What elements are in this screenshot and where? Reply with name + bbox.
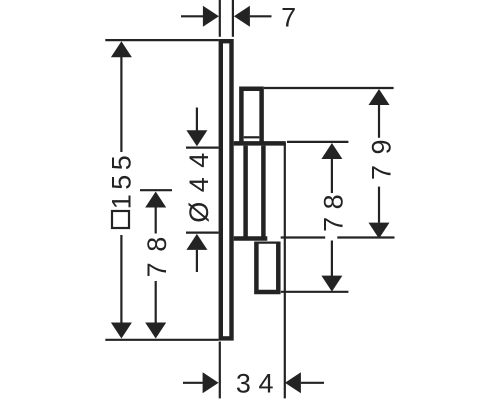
dim 34: right leader [301,382,324,384]
dim 7: left extension line [219,0,221,37]
dim 78 left: top arrow [145,192,166,208]
dim 34: right arrow [285,372,301,393]
dim 7: right arrow [234,6,250,27]
dim 79: bottom extension line left segment [281,236,326,238]
dim 44: lower arrow [186,234,207,250]
upper knob outline [241,89,261,146]
body back line [284,143,286,398]
dim 44: top tick [186,147,219,149]
dim 44: upper leader [196,108,198,131]
dim 7: right leader [250,15,272,17]
dim 79: bottom extension line right segment [337,236,394,238]
svg-text:7 8: 7 8 [318,194,348,232]
svg-text:7 8: 7 8 [142,235,172,277]
dim 78 right: top arrow [321,143,342,159]
dim 155: dimension line upper segment [120,57,122,152]
dim 78 left: top tick [140,189,172,191]
dim 79: top arrow [369,89,390,105]
lower knob top line [256,242,278,244]
dim 7: left leader [181,15,204,17]
dim 78 right: top extension line [287,141,348,143]
cylinder front edge [243,146,248,239]
dim 79: dimension line upper segment [378,105,380,138]
dim 78 right: dimension line upper segment [331,159,333,193]
dim 78 left: dimension line upper segment [155,207,157,233]
dim 155: dimension line lower segment [120,235,122,323]
svg-text:1 5 5: 1 5 5 [107,156,137,209]
dim 7: left arrow [203,6,219,27]
dim 79: top extension line [264,87,394,89]
dim 44: upper arrow [186,130,207,146]
dim 78 right: bottom extension line [281,291,349,293]
dim 155: square symbol [112,211,129,228]
dim 155: bottom extension line [105,339,218,341]
dim 79: dimension line lower segment [378,187,380,223]
dim 155: bottom arrow [111,323,132,339]
dim 155: top arrow [111,41,132,57]
dim 79: bottom arrow [369,223,390,239]
svg-text:7: 7 [281,2,296,32]
wall plate (side view, 155x7) [221,41,232,338]
dim 34: left arrow [203,372,219,393]
dim 34: left extension line [219,342,221,399]
lower knob outline [256,242,278,293]
dim 7: right extension line [232,0,234,37]
dim 44: lower leader [196,250,198,272]
dim 78 right: bottom arrow [321,276,342,292]
body top edge [234,141,286,146]
dim 155: top extension line [105,39,218,41]
svg-text:3 4: 3 4 [236,369,274,399]
dim 34: left leader [183,382,203,384]
upper knob base line [244,136,260,138]
body bottom edge [234,236,268,241]
dim 78 left: bottom arrow [145,323,166,339]
dim 78 right: dimension line lower segment [331,241,333,277]
svg-text:Ø 4 4: Ø 4 4 [184,152,214,223]
cylinder back edge [261,146,266,239]
dim 78 left: dimension line lower segment [155,281,157,323]
svg-text:7 9: 7 9 [366,138,396,180]
dim 44: bottom tick [186,232,219,234]
